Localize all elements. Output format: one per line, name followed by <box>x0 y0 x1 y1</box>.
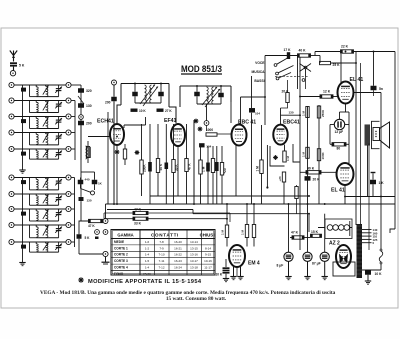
svg-text:5 K: 5 K <box>85 236 91 240</box>
svg-text:50 K: 50 K <box>159 163 163 170</box>
svg-text:100K: 100K <box>321 151 325 159</box>
svg-text:130: 130 <box>86 104 92 108</box>
svg-text:GAMMA: GAMMA <box>117 232 133 237</box>
svg-text:1-6: 1-6 <box>145 240 150 244</box>
svg-text:CHIUSI: CHIUSI <box>200 232 215 237</box>
svg-text:25-26: 25-26 <box>143 272 151 276</box>
svg-text:440: 440 <box>85 178 90 182</box>
svg-text:9-15: 9-15 <box>205 253 211 257</box>
svg-text:1-2: 1-2 <box>145 246 150 250</box>
svg-text:7-12: 7-12 <box>158 266 164 270</box>
svg-text:22 K: 22 K <box>341 45 349 49</box>
svg-text:10 K: 10 K <box>216 273 223 277</box>
svg-text:7-10: 7-10 <box>158 253 164 257</box>
svg-text:200K: 200K <box>143 164 147 172</box>
svg-text:16-24: 16-24 <box>174 266 182 270</box>
svg-text:VOCE: VOCE <box>255 61 265 65</box>
svg-text:CORTE 4: CORTE 4 <box>114 266 128 270</box>
svg-text:FONO: FONO <box>114 272 124 276</box>
svg-text:12 K: 12 K <box>323 90 331 94</box>
svg-text:MUSICA: MUSICA <box>251 70 265 74</box>
svg-text:+20: +20 <box>278 176 282 181</box>
svg-text:BASSI: BASSI <box>254 79 264 83</box>
svg-text:104: 104 <box>206 144 211 148</box>
svg-text:8-14: 8-14 <box>205 246 211 250</box>
svg-text:1 K: 1 K <box>379 181 385 185</box>
svg-text:250K: 250K <box>321 109 325 117</box>
svg-text:EM 4: EM 4 <box>248 261 260 267</box>
svg-text:AZ 2: AZ 2 <box>329 241 340 247</box>
svg-text:16-20: 16-20 <box>174 240 182 244</box>
svg-text:47 K: 47 K <box>88 224 95 228</box>
svg-text:1 M: 1 M <box>241 229 245 235</box>
svg-text:13-14: 13-14 <box>190 240 198 244</box>
svg-text:12 μF: 12 μF <box>335 130 344 134</box>
svg-text:7-8: 7-8 <box>159 240 164 244</box>
svg-text:+20: +20 <box>223 168 227 174</box>
svg-text:1-5: 1-5 <box>145 259 150 263</box>
svg-text:7-11: 7-11 <box>159 259 165 263</box>
svg-text:1 M: 1 M <box>286 155 290 161</box>
svg-text:1 M: 1 M <box>302 151 306 157</box>
svg-text:EF41: EF41 <box>164 118 177 124</box>
svg-text:47 K: 47 K <box>188 163 192 170</box>
svg-text:CONTATTI: CONTATTI <box>151 232 179 237</box>
svg-text:13-18: 13-18 <box>190 266 198 270</box>
svg-text:15 watt. Consumo 80 watt.: 15 watt. Consumo 80 watt. <box>166 296 227 302</box>
svg-text:MEDIE: MEDIE <box>114 240 124 244</box>
svg-text:10 K: 10 K <box>139 109 146 113</box>
svg-text:1 M: 1 M <box>221 229 225 235</box>
svg-text:1000: 1000 <box>206 128 213 132</box>
svg-text:13-17: 13-17 <box>190 259 198 263</box>
svg-text:16-21: 16-21 <box>174 246 182 250</box>
svg-text:ECH41: ECH41 <box>97 119 114 125</box>
svg-text:10-16: 10-16 <box>204 259 212 263</box>
svg-text:1-4: 1-4 <box>145 253 150 257</box>
svg-text:17 K: 17 K <box>284 48 292 52</box>
svg-text:80: 80 <box>337 146 341 150</box>
svg-text:27 K: 27 K <box>165 109 172 113</box>
svg-text:10 K: 10 K <box>375 272 383 276</box>
svg-text:33 K: 33 K <box>134 222 142 226</box>
svg-text:EL 41: EL 41 <box>331 188 345 194</box>
svg-text:40 K: 40 K <box>299 49 307 53</box>
svg-text:11-17: 11-17 <box>204 266 212 270</box>
svg-text:5n: 5n <box>379 87 383 91</box>
svg-text:104: 104 <box>255 112 260 116</box>
svg-text:130: 130 <box>87 199 92 203</box>
svg-text:MOD 851/3: MOD 851/3 <box>181 64 222 74</box>
svg-text:13-15: 13-15 <box>190 246 198 250</box>
svg-text:EBC41: EBC41 <box>283 120 300 126</box>
svg-text:40 K: 40 K <box>307 167 315 171</box>
svg-text:VEGA - Mod 181/B. Una gamma on: VEGA - Mod 181/B. Una gamma onde medie e… <box>40 290 336 296</box>
svg-text:MODIFICHE APPORTATE IL 15·5: MODIFICHE APPORTATE IL 15·5·1954 <box>88 279 202 285</box>
svg-text:47 K: 47 K <box>134 208 142 212</box>
svg-text:16-22: 16-22 <box>174 253 182 257</box>
svg-text:7-9: 7-9 <box>159 246 164 250</box>
svg-text:320: 320 <box>86 89 92 93</box>
svg-text:8 μF: 8 μF <box>277 264 284 268</box>
svg-text:5 K: 5 K <box>19 63 25 67</box>
svg-text:200: 200 <box>86 122 92 126</box>
svg-text:13-16: 13-16 <box>190 253 198 257</box>
svg-text:CORTE 3: CORTE 3 <box>114 259 128 263</box>
svg-text:20 K: 20 K <box>282 90 290 94</box>
svg-text:130: 130 <box>289 111 294 115</box>
svg-text:1 M: 1 M <box>202 166 206 172</box>
svg-text:1-4: 1-4 <box>145 266 150 270</box>
svg-text:CORTE 1: CORTE 1 <box>114 246 128 250</box>
svg-text:15 K: 15 K <box>311 230 319 234</box>
svg-text:CORTE 2: CORTE 2 <box>114 253 128 257</box>
svg-text:1 M: 1 M <box>256 166 260 172</box>
svg-text:47 K: 47 K <box>291 231 299 235</box>
svg-text:87 μF: 87 μF <box>312 262 321 266</box>
svg-text:200: 200 <box>105 101 111 105</box>
svg-text:16-23: 16-23 <box>174 259 182 263</box>
svg-text:1 M: 1 M <box>302 110 306 116</box>
